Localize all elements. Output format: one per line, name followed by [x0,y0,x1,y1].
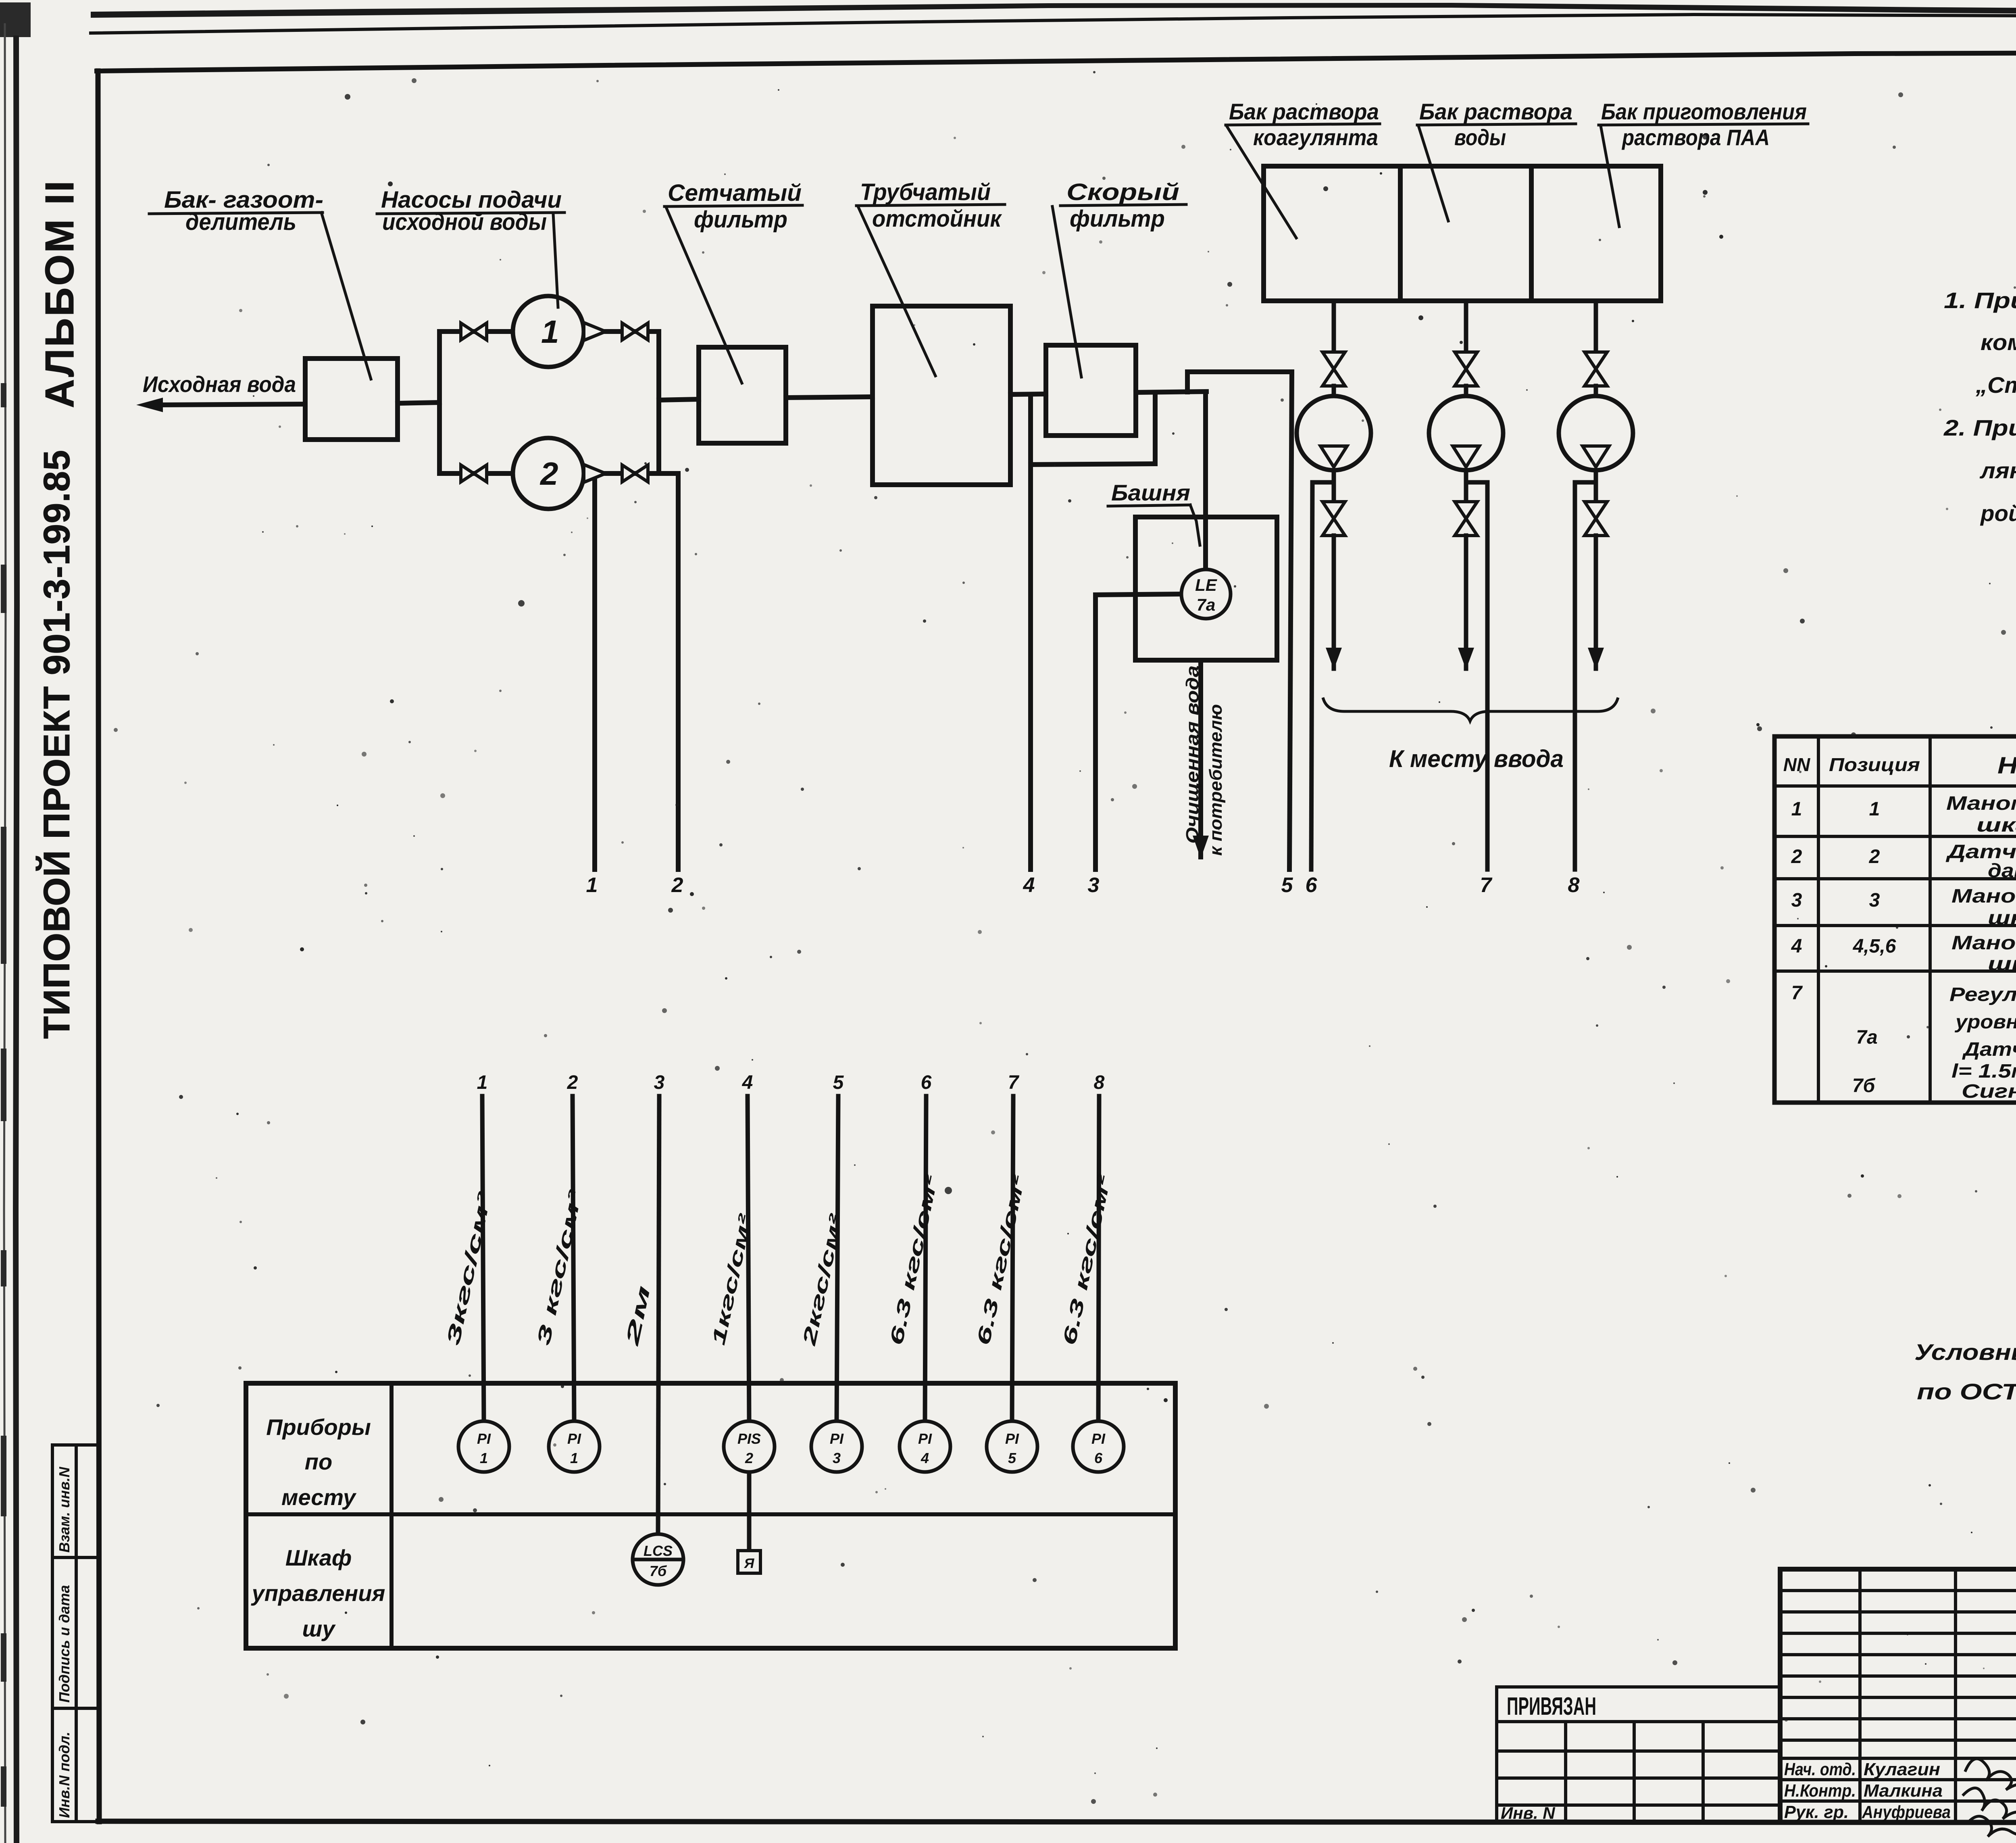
svg-text:1: 1 [477,1072,488,1093]
svg-text:Приборы: Приборы [266,1414,371,1440]
svg-text:ТИПОВОЙ ПРОЕКТ 901-3-199.85: ТИПОВОЙ ПРОЕКТ 901-3-199.85 [35,450,77,1039]
svg-text:Скорый: Скорый [1066,179,1179,205]
svg-text:1. Прибор поз. 3 поставляе: 1. Прибор поз. 3 поставляется [1944,288,2016,313]
svg-text:Сигнальный блок.: Сигнальный блок. [1962,1081,2016,1102]
svg-text:Нач. отд.: Нач. отд. [1784,1760,1856,1779]
svg-text:3кгс/см²: 3кгс/см² [442,1189,496,1347]
svg-text:раствора ПАА: раствора ПАА [1621,125,1770,150]
svg-text:Бак раствора: Бак раствора [1419,99,1572,124]
svg-text:Датчик- реле разности: Датчик- реле разности [1945,841,2016,863]
svg-text:6.3 кгс/см²: 6.3 кгс/см² [885,1172,942,1347]
svg-text:ляются комплектно с уст-: ляются комплектно с уст- [1979,458,2016,483]
svg-text:7: 7 [1791,982,1803,1004]
svg-text:3: 3 [654,1072,665,1093]
svg-text:4: 4 [742,1072,753,1093]
svg-text:PI: PI [1005,1430,1019,1447]
svg-text:по ОСТУ 36.27-77.: по ОСТУ 36.27-77. [1917,1379,2016,1404]
svg-text:PI: PI [1091,1430,1106,1447]
svg-text:2: 2 [1791,846,1802,867]
svg-text:Очищенная вода: Очищенная вода [1183,665,1202,844]
svg-text:месту: месту [281,1484,357,1510]
svg-text:8: 8 [1094,1072,1105,1093]
svg-text:8: 8 [1568,874,1580,897]
svg-text:Малкина: Малкина [1864,1781,1943,1801]
svg-text:Бак раствора: Бак раствора [1229,99,1379,124]
svg-text:4: 4 [1023,874,1035,897]
svg-text:PI: PI [830,1430,844,1447]
svg-text:3 кгс/см²: 3 кгс/см² [533,1188,586,1347]
svg-text:Позиция: Позиция [1829,754,1920,775]
svg-text:1: 1 [586,874,598,897]
svg-text:1: 1 [1869,798,1880,820]
svg-text:Исходная вода: Исходная вода [143,371,296,397]
svg-text:Рук. гр.: Рук. гр. [1784,1802,1849,1822]
svg-text:2: 2 [671,874,683,897]
svg-text:2м: 2м [621,1284,654,1348]
svg-text:управления: управления [251,1580,385,1606]
svg-text:LE: LE [1195,575,1218,594]
svg-text:3: 3 [833,1450,841,1466]
svg-text:Условные обозначения прибор: Условные обозначения приборов [1914,1339,2016,1365]
svg-text:6.3 кгс/см²: 6.3 кгс/см² [1058,1172,1115,1347]
svg-text:давления: давления [1988,860,2016,882]
svg-text:шкала 0- 10 кгс/см²: шкала 0- 10 кгс/см² [1988,953,2016,975]
svg-text:шкала 0÷4 кгс/см²: шкала 0÷4 кгс/см² [1976,815,2016,836]
svg-text:Манометр механический: Манометр механический [1946,793,2016,814]
svg-text:PI: PI [918,1430,932,1447]
svg-text:Трубчатый: Трубчатый [860,179,991,205]
svg-text:2: 2 [1869,846,1880,867]
svg-text:Башня: Башня [1111,480,1190,505]
svg-text:7а: 7а [1197,595,1216,614]
svg-text:шкала 0÷2.5 кгс/см²: шкала 0÷2.5 кгс/см² [1988,907,2016,929]
svg-text:2: 2 [539,456,558,492]
svg-text:PI: PI [567,1430,581,1447]
svg-text:АЛЬБОМ II: АЛЬБОМ II [37,179,82,408]
svg-text:Инв.N подл.: Инв.N подл. [56,1732,73,1818]
svg-text:Подпись и дата: Подпись и дата [56,1585,73,1703]
svg-text:Я: Я [744,1556,755,1571]
svg-text:5: 5 [1008,1450,1016,1466]
svg-text:фильтр: фильтр [1070,206,1165,232]
svg-text:PI: PI [477,1430,491,1447]
svg-text:1: 1 [541,314,559,350]
svg-text:ройством ЛУР.: ройством ЛУР. [1980,500,2016,526]
svg-text:7: 7 [1480,874,1493,897]
svg-text:NN: NN [1783,754,1810,775]
svg-text:4: 4 [921,1450,929,1466]
svg-text:Бак приготовления: Бак приготовления [1601,99,1807,124]
svg-text:Регулятор-сигнализатор: Регулятор-сигнализатор [1949,984,2016,1005]
svg-text:Кулагин: Кулагин [1864,1760,1940,1779]
svg-text:PIS: PIS [737,1430,761,1447]
svg-text:Манометр технический: Манометр технический [1951,886,2016,907]
svg-text:LCS: LCS [644,1543,673,1559]
svg-text:6.3 кгс/см²: 6.3 кгс/см² [973,1172,1029,1347]
svg-text:5: 5 [1281,874,1293,897]
svg-text:Инв. N: Инв. N [1501,1803,1556,1822]
svg-text:4,5,6: 4,5,6 [1853,936,1896,957]
svg-text:шу: шу [302,1616,336,1641]
svg-text:ПРИВЯЗАН: ПРИВЯЗАН [1507,1693,1596,1720]
svg-text:Н.Контр.: Н.Контр. [1784,1781,1856,1801]
svg-text:по: по [305,1449,332,1474]
svg-text:2: 2 [567,1072,578,1093]
svg-text:6: 6 [1306,874,1318,897]
svg-text:7б: 7б [650,1563,667,1579]
svg-text:1: 1 [480,1450,488,1466]
svg-text:Шкаф: Шкаф [285,1545,352,1570]
svg-text:Ануфриева: Ануфриева [1862,1802,1951,1822]
svg-text:воды: воды [1454,125,1506,150]
svg-text:фильтр: фильтр [694,206,787,233]
svg-text:Взам. инв.N: Взам. инв.N [56,1466,73,1553]
svg-text:3: 3 [1869,890,1880,911]
svg-text:2: 2 [745,1450,753,1466]
svg-text:7б: 7б [1852,1075,1876,1097]
svg-text:1: 1 [1791,798,1802,820]
svg-text:„Струя“.: „Струя“. [1975,372,2016,398]
svg-text:Наименование: Наименование [1997,753,2016,779]
svg-text:уровня. В комплекте:: уровня. В комплекте: [1955,1011,2016,1033]
svg-text:отстойник: отстойник [872,206,1002,232]
svg-text:l= 1.5м - 1шт.; l=0.5м - 1шт.: l= 1.5м - 1шт.; l=0.5м - 1шт. [1951,1061,2016,1082]
svg-text:7: 7 [1008,1072,1020,1093]
svg-text:Датчики l= 2м - 1шт.;: Датчики l= 2м - 1шт.; [1962,1039,2016,1060]
svg-text:4: 4 [1791,936,1802,957]
svg-text:3: 3 [1791,890,1802,911]
svg-text:К месту ввода: К месту ввода [1389,745,1564,772]
svg-text:Сетчатый: Сетчатый [668,180,802,206]
svg-text:3: 3 [1088,874,1100,897]
svg-text:6: 6 [921,1072,932,1093]
svg-text:7а: 7а [1856,1027,1877,1048]
svg-text:6: 6 [1094,1450,1103,1466]
svg-text:1: 1 [570,1450,578,1466]
svg-text:к потребителю: к потребителю [1206,704,1226,856]
svg-text:5: 5 [833,1072,844,1093]
svg-text:Манометр технический: Манометр технический [1951,932,2016,954]
svg-text:2. Приборы поз. 2 и поз.: 2. Приборы поз. 2 и поз. 7 постав- [1943,415,2016,440]
svg-text:коагулянта: коагулянта [1253,125,1378,150]
svg-text:комплектно с установкой: комплектно с установкой [1981,329,2016,355]
